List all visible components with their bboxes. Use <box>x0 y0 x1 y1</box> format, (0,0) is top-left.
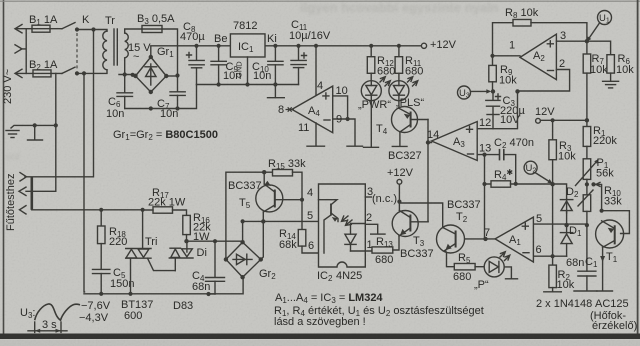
capacitor C6 <box>117 75 133 109</box>
node R3 top <box>551 118 555 122</box>
resistor R14 <box>298 200 318 253</box>
frame top border <box>0 0 640 2</box>
wire 0V rail lower <box>125 85 197 109</box>
wire 0V sub rail <box>197 84 299 86</box>
wire T5 emitter up <box>263 172 265 184</box>
A4 pin11 wire <box>315 123 317 146</box>
capacitor C2 <box>500 149 516 184</box>
node C10 bottom <box>273 82 277 86</box>
opto LED <box>345 224 356 252</box>
U1 circle <box>598 11 612 25</box>
opto LED top link <box>351 223 366 225</box>
resistor R5 <box>454 264 475 270</box>
opto inner pin6 link <box>324 215 331 253</box>
node A1 out <box>483 237 487 241</box>
node T5 collector <box>261 219 265 223</box>
arrow T1 sensor <box>600 256 605 262</box>
wire 12V sub rail <box>541 119 587 121</box>
capacitor C8 electrolytic <box>187 46 205 85</box>
wire +12V to T3 <box>398 184 400 210</box>
potentiometer P1 <box>576 159 599 186</box>
transistor T3 circle <box>392 211 418 237</box>
wire Gr2 left riser <box>226 172 264 259</box>
transformer Tr primary winding <box>103 31 107 70</box>
A4 pin10 wire <box>333 96 348 119</box>
wire T1 bottom <box>602 247 604 290</box>
wire A1 pin5 row <box>533 223 587 225</box>
transistor T5 circle <box>256 185 283 212</box>
wire wiper to T1 <box>594 184 602 210</box>
wire heater rail to R18 <box>32 209 143 211</box>
wire A2 pin3 <box>556 41 610 55</box>
wire diac rail <box>187 240 244 242</box>
A4 pin9 wire <box>333 119 355 146</box>
node pin13 R4 <box>482 153 486 157</box>
node C9 bottom <box>217 82 221 86</box>
resistor R13 <box>372 236 399 253</box>
U2 circle <box>524 161 537 174</box>
fuse B2 <box>33 70 51 77</box>
wire phase drop to heater <box>25 30 94 177</box>
arrow heater rail <box>20 206 27 214</box>
node A3 out T4 <box>426 140 430 144</box>
stub bar under T1 <box>597 290 613 292</box>
node R4 left <box>482 182 486 186</box>
node R4 right <box>514 182 518 186</box>
chassis stub under C10 <box>268 85 285 98</box>
wire T2 collector <box>399 203 442 228</box>
op-amp A3 <box>432 122 478 161</box>
capacitor C9 <box>211 46 226 85</box>
node R18 top <box>99 208 103 212</box>
wire R5 to LED <box>475 266 484 268</box>
resistor R18 <box>98 210 106 269</box>
node earth tie <box>54 123 58 127</box>
svg-text:ilgyen hcovabbi egyszinte nyal: ilgyen hcovabbi egyszinte nyaln <box>300 0 499 15</box>
wire N long drop <box>83 73 86 292</box>
resistor R1 <box>583 120 591 159</box>
IC1 GND pin <box>247 57 249 85</box>
node T1 top <box>600 209 604 213</box>
capacitor C1 <box>574 225 597 291</box>
diac Di <box>169 241 193 270</box>
node R2 top <box>551 254 555 258</box>
wire T5 emitter node row <box>243 220 319 222</box>
node sec bottom <box>123 72 127 76</box>
resistor R15 <box>264 170 302 200</box>
resistor R17 <box>143 207 187 216</box>
bridge Gr2 diamond <box>226 242 261 277</box>
node pin9 <box>346 117 350 121</box>
node GND bottom <box>245 82 249 86</box>
wire A2 pin2 feedback <box>518 70 570 92</box>
resistor R7 <box>583 41 591 120</box>
resistor R9 <box>489 56 497 92</box>
chassis stub bar <box>28 125 43 140</box>
node R11 rail <box>397 44 401 48</box>
transistor T2 circle <box>437 225 465 253</box>
resistor R2 <box>544 256 562 292</box>
opto pin2 stub <box>365 224 377 234</box>
U3 arrow to node <box>471 89 492 93</box>
node phase tap <box>91 27 95 31</box>
A1 plus <box>522 223 528 229</box>
terminal +12V <box>421 43 426 48</box>
LED PWR <box>361 81 381 101</box>
wire N bus <box>77 70 107 73</box>
wire Gr2 top riser <box>242 221 244 242</box>
opto pin3 stub <box>365 196 371 198</box>
node A4 pin4 riser <box>314 44 318 48</box>
wire Gr2 right riser <box>261 221 264 259</box>
transistor T4 bar and leads <box>399 108 428 132</box>
A3 minus <box>468 153 474 155</box>
U3 circle <box>458 86 471 100</box>
opto phototransistor <box>319 200 339 222</box>
node bridge ac left <box>131 73 135 77</box>
capacitor C3 electrolytic <box>486 91 501 128</box>
capacitor C7 <box>170 92 185 109</box>
resistor R3 <box>549 120 557 184</box>
wire bridge top to rail <box>151 46 197 57</box>
A2 minus <box>548 70 554 72</box>
transistor T1 bar and leads <box>602 221 615 248</box>
wire A2 pin1 <box>493 55 521 57</box>
resistor R10 <box>578 184 593 225</box>
node triac MT2 rail <box>141 208 145 212</box>
LED P <box>484 257 504 277</box>
arrow heater N <box>19 187 26 195</box>
A1 minus <box>523 252 529 254</box>
node R12 rail <box>369 44 373 48</box>
wire T2 emitter to R5 <box>446 251 455 267</box>
U1 arrow <box>587 23 600 42</box>
node D2 D1 junction <box>564 223 568 227</box>
resistor R8 <box>493 20 587 56</box>
node R16 bottom <box>184 239 188 243</box>
switch K link <box>76 33 78 70</box>
wire secondary top to fuse <box>125 29 142 33</box>
node Be <box>217 44 221 48</box>
wire R4 row <box>485 155 492 184</box>
wire secondary bottom <box>119 58 136 75</box>
wire mains L2 arrow-in <box>21 29 26 74</box>
switch K pole 1 <box>62 23 79 32</box>
node R15 left <box>262 170 266 174</box>
stub bar LED P <box>506 278 518 280</box>
wire T1 loop <box>602 211 630 234</box>
paper texture noise <box>0 0 1 1</box>
fuse B3 <box>142 26 162 33</box>
op-amp A1 <box>495 217 533 262</box>
wire A3 pin12 riser <box>477 91 517 128</box>
stub bar under pin11 <box>307 145 325 147</box>
capacitor C5 <box>93 269 110 293</box>
node T3 collector <box>397 200 401 204</box>
wire T4 emitter to PLS <box>398 101 400 109</box>
wire R4 to divider <box>511 184 567 199</box>
transformer core <box>114 29 117 65</box>
A4 pin8 mark <box>286 107 294 111</box>
A4 minus <box>324 119 330 121</box>
node Ki out <box>273 44 277 48</box>
node bridge bottom rail <box>149 106 153 110</box>
terminal 12V sub <box>536 118 541 123</box>
stub bar under PWR <box>364 146 379 148</box>
transistor T1 circle <box>596 220 624 248</box>
LED PLS <box>389 81 409 101</box>
wire earth line <box>11 125 56 128</box>
wire T4 collector stub <box>399 132 401 146</box>
regulator IC1 7812 <box>230 34 265 57</box>
bridge Gr2 inner diode <box>233 254 252 264</box>
node pin1 <box>490 54 494 58</box>
node pin12 riser <box>515 89 519 93</box>
opto LED bottom link <box>351 250 366 252</box>
waveform curve <box>35 304 80 320</box>
transistor T4 circle <box>392 107 418 133</box>
triac Tri <box>126 210 176 294</box>
wire A3 out <box>428 143 432 222</box>
wire +12V rail <box>197 45 421 47</box>
node chassis stub <box>33 123 37 127</box>
wire A3 pin13 <box>477 154 499 156</box>
node triac MT1 rail <box>128 292 132 296</box>
optocoupler IC2 box <box>319 184 366 267</box>
resistor R11 <box>395 46 403 81</box>
diode D1 <box>560 225 572 256</box>
switch K pole 2 <box>62 67 79 75</box>
resistor R6 <box>607 55 615 81</box>
wire T4 base to A3 <box>427 120 429 143</box>
wire LED P to stub <box>504 267 511 279</box>
node C7 top <box>175 73 179 77</box>
transistor T5 bar and leads <box>263 181 302 212</box>
node Gr2 top tap <box>241 219 245 223</box>
node R1 top <box>585 118 589 122</box>
LED P arrows <box>500 252 510 261</box>
node P1 bottom <box>585 182 589 186</box>
bridge Gr1 diamond <box>136 57 167 92</box>
A3 plus <box>467 126 473 132</box>
fuse B1 <box>32 25 50 32</box>
wire B2 drop to heater N <box>26 73 56 191</box>
transistor T3 bar and leads <box>399 211 428 237</box>
terminal +12V T3 <box>397 179 402 184</box>
node C11 top <box>296 44 300 48</box>
node U3 C3 <box>491 89 495 93</box>
wire bridge right to C7 <box>166 75 177 77</box>
wire fuse to C7 column <box>162 29 178 92</box>
wire mains L1 top <box>16 28 62 30</box>
waveform dimension <box>28 322 67 333</box>
capacitor C10 <box>268 46 283 85</box>
resistor R16 <box>183 215 191 241</box>
wire heater pair link <box>30 177 33 210</box>
stub bar under T4 <box>392 145 407 147</box>
bridge Gr1 corner nodes <box>133 55 168 94</box>
U2 arrow <box>535 173 553 184</box>
opto pin1 wire <box>365 250 372 251</box>
node wiper join <box>591 182 595 186</box>
op-amp A4 <box>292 86 333 133</box>
arrow mains L2 <box>15 45 22 53</box>
op-amp A2 <box>520 34 556 80</box>
wire bottom rail <box>84 277 243 294</box>
resistor R4 <box>491 181 511 187</box>
node pin3 junction <box>585 39 589 43</box>
node N tap <box>82 71 86 75</box>
node C4 bottom <box>206 292 210 296</box>
wire switch to primary top <box>77 30 107 32</box>
frame bottom band <box>0 334 640 340</box>
diode D2 <box>560 199 572 225</box>
wire T5 collector down <box>262 212 264 221</box>
bridge Gr2 corner nodes <box>224 240 263 279</box>
node C5 bottom <box>99 292 103 296</box>
stub bar under pin9 <box>347 145 363 147</box>
arrow mains L1 <box>15 25 22 33</box>
resistor R12 <box>367 46 375 81</box>
transistor T2 bar and leads <box>443 228 456 252</box>
node T5 base R14 <box>300 198 304 202</box>
earth ground <box>6 131 19 138</box>
node divider U2 <box>550 182 554 186</box>
wire R4 node to pin6 column <box>552 184 554 256</box>
capacitor C11 electrolytic <box>291 46 307 85</box>
A4 plus <box>323 93 329 99</box>
wire mains N <box>16 72 62 74</box>
wire A1 pin6 row <box>533 255 566 257</box>
wire A1 out to T2 <box>465 238 496 240</box>
A2 plus <box>547 41 553 47</box>
bleed-through ghost top <box>6 0 499 163</box>
wire T3 base link <box>427 220 429 222</box>
bridge Gr1 inner diode <box>145 64 157 85</box>
stub bar pin2 <box>371 233 385 235</box>
arrow mains N <box>15 69 22 77</box>
ground under R6 <box>603 81 619 88</box>
arrow heater L <box>20 173 27 181</box>
LED PLS arrows <box>408 77 418 86</box>
wiper tick marks <box>596 182 600 186</box>
capacitor C4 <box>206 241 225 294</box>
LED PWR arrows <box>380 77 390 86</box>
wire PWR cathode <box>370 101 372 147</box>
node C4 top <box>213 239 217 243</box>
transformer secondary winding <box>125 33 129 58</box>
frame left border <box>3 0 5 334</box>
opto light arrows <box>342 216 353 225</box>
node C8 top <box>194 44 198 48</box>
svg-text:enl: enl <box>6 152 19 163</box>
node C7 bottom rail <box>175 106 179 110</box>
node R10 bottom <box>585 223 589 227</box>
wire A1 output riser <box>484 184 486 239</box>
frame right border <box>637 0 639 334</box>
A4 pin4 wire <box>315 46 317 95</box>
